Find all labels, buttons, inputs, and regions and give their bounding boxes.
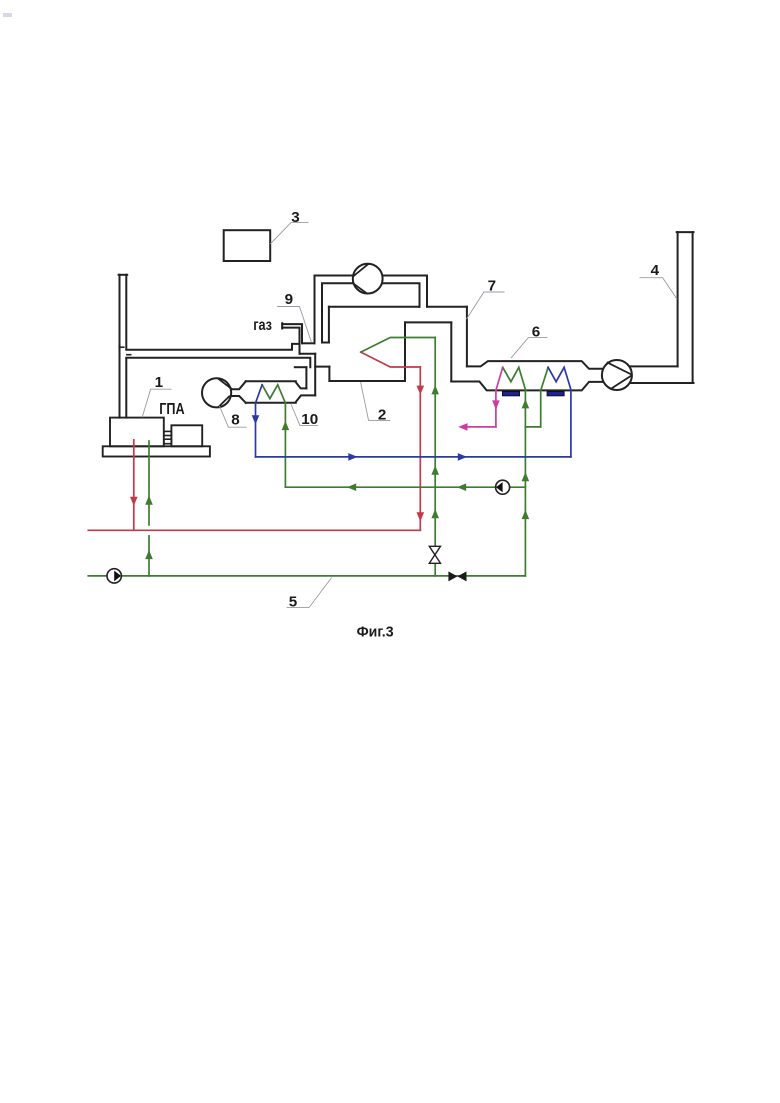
tick mark on stack left line — [119, 346, 124, 348]
green arrow left on return line (right) — [457, 483, 466, 491]
green leg of HX10 coil down to return line — [284, 403, 286, 487]
svg-text:4: 4 — [651, 262, 660, 279]
gas supply pipe double line with end cap — [282, 323, 302, 354]
riser inner wall x=306.4 — [305, 367, 307, 388]
duct to stack 4 bottom line — [631, 382, 694, 384]
green bottom header 5 left of pump — [88, 575, 107, 577]
magenta arrow down on leg — [492, 400, 500, 409]
duct 7 outer line — [466, 307, 468, 367]
fan chord upper — [608, 363, 631, 375]
box 2 left wall — [404, 322, 406, 381]
fan 8 : circle — [202, 378, 231, 407]
GPA coupling bar upper — [164, 431, 172, 435]
red arrow down above header — [417, 512, 425, 521]
leader for label 1 — [142, 389, 171, 417]
leader for label 2 — [361, 383, 390, 421]
svg-text:6: 6 — [532, 324, 540, 341]
box 2 step horizontal — [315, 366, 329, 368]
U-duct bottom cap — [322, 342, 329, 344]
svg-text:газ: газ — [253, 317, 272, 334]
blue arrow right on header (left) — [348, 453, 357, 461]
recirculation loop inner duct line — [322, 283, 420, 342]
green return line through pump to HX10 — [285, 486, 495, 488]
green segment pump to riser — [510, 486, 526, 488]
svg-text:9: 9 — [285, 291, 293, 308]
exhaust duct from turbine to stack, top line with step up — [126, 344, 299, 350]
recirculation loop outer duct line — [315, 276, 428, 344]
green arrow up above return line — [431, 466, 439, 475]
leader for label 3 — [271, 223, 308, 244]
heat exchanger 6 vessel outline top — [467, 361, 604, 369]
leader for label 8 — [220, 406, 247, 427]
green arrow left on return line (left) — [347, 483, 356, 491]
red arrow down on GPA line — [130, 497, 138, 506]
heat exchanger 6 vessel outline bottom — [451, 382, 603, 391]
blue supply header — [256, 456, 571, 458]
svg-text:10: 10 — [301, 411, 318, 428]
HX6 second coil zigzag blue part — [548, 367, 571, 390]
fan chord lower — [611, 376, 631, 389]
green line from flame down to valve — [434, 338, 436, 547]
svg-text:Фиг.3: Фиг.3 — [357, 623, 394, 640]
fan after HX6 : circle — [602, 360, 632, 390]
magenta leg of HX6 first coil — [495, 391, 497, 427]
green arrow up on riser below return — [522, 510, 530, 519]
blue leg of HX10 coil down — [255, 403, 257, 457]
red hot-water line down from box 2 — [419, 367, 421, 530]
green arrow up below return line — [431, 509, 439, 518]
gate valve vertical on green line — [429, 546, 440, 563]
green leg of HX6 second coil — [540, 391, 542, 427]
leader for label 10 — [291, 405, 317, 426]
navy tube-sheet bar under HX6 first coil — [503, 392, 520, 396]
GPA base plate — [103, 446, 210, 456]
instrument box 3 — [224, 230, 271, 261]
red hot-water header to the left — [88, 529, 420, 531]
HX10 coil zigzag blue part — [256, 385, 263, 403]
HX10 coil zigzag green part — [262, 385, 285, 403]
turbine outlet box 2 top line — [405, 321, 451, 323]
fan 8 chord lower — [218, 396, 229, 407]
leader for label 9 — [278, 307, 312, 342]
duct to stack 4 top line — [631, 365, 678, 367]
svg-text:1: 1 — [155, 374, 164, 391]
riser outer wall x=315.2 — [314, 354, 316, 396]
fan 8 chord upper — [218, 379, 231, 389]
duct 7 inner line — [450, 322, 452, 381]
green arrow up on GPA line upper — [145, 496, 153, 505]
svg-text:8: 8 — [231, 412, 239, 429]
leader for label 4 — [640, 278, 677, 299]
green line from GPA down (upper part) — [148, 441, 150, 525]
red arrow down near box 2 — [417, 386, 425, 395]
burner flame red arm — [361, 352, 421, 367]
svg-text:7: 7 — [488, 278, 496, 295]
blue riser to HX6 second coil — [570, 391, 572, 457]
green arrow up on HX10 leg — [282, 421, 290, 430]
GPA secondary box — [171, 425, 202, 446]
green bottom header 5 right of pump — [121, 575, 525, 577]
svg-text:2: 2 — [378, 407, 386, 424]
green arrow up below flame — [431, 385, 439, 394]
HX6 first coil zigzag magenta part — [496, 367, 503, 390]
rung y=367 — [295, 366, 307, 368]
exhaust duct bottom line with downturn — [126, 358, 310, 367]
gas nozzle lower line y=353.7 — [300, 353, 316, 355]
horizontal duct y=306.7 left segment — [329, 306, 420, 308]
leader for label 7 — [467, 292, 504, 319]
red line from GPA down — [133, 440, 135, 531]
box 2 step vertical — [328, 367, 330, 381]
blue arrow right on header (right) — [458, 453, 467, 461]
green riser x=525.4 from bottom header to HX6 — [524, 391, 526, 576]
magenta arrow left at line end — [458, 423, 467, 431]
box 2 bottom line — [329, 380, 405, 382]
svg-text:ГПА: ГПА — [159, 401, 184, 418]
connector y=343.3 — [302, 342, 315, 344]
green rung to second coil leg — [525, 426, 540, 428]
fan chord lower — [353, 284, 367, 294]
heat exchanger 10 vessel outline — [231, 381, 295, 403]
GPA coupling bar lower — [164, 439, 172, 444]
fan on recirculation loop: circle — [353, 264, 383, 294]
navy tube-sheet bar under HX6 second coil — [547, 392, 564, 396]
gate valve horizontal on bottom header — [448, 571, 466, 581]
green line from GPA down (lower part) — [148, 536, 150, 576]
HX10 outlet top line — [296, 382, 307, 389]
faint scan smudge top-left — [3, 13, 12, 17]
circulation pump on bottom header — [107, 569, 121, 583]
svg-text:5: 5 — [289, 593, 298, 610]
svg-text:3: 3 — [291, 209, 299, 226]
burner flame green arm — [361, 338, 435, 353]
GPA unit 1 : main body box — [110, 418, 164, 447]
green arrow up on riser above return — [522, 472, 530, 481]
downcomer V3 upper — [328, 307, 330, 343]
blue arrow down on HX10 leg — [252, 415, 260, 424]
horizontal duct y=306.7 right segment to duct 7 — [427, 306, 467, 308]
fan chord upper — [353, 264, 368, 276]
green line from valve to bottom header — [434, 563, 436, 576]
circulation pump on return line — [496, 480, 510, 494]
exhaust stack left (at GPA), double line with top cap — [119, 275, 128, 418]
magenta outlet line left — [462, 426, 496, 428]
exhaust stack 4 double line with top cap — [677, 232, 694, 383]
HX6 second coil zigzag green leg — [541, 367, 548, 390]
leader for label 5 — [287, 578, 331, 608]
green arrow up on riser near HX6 — [522, 399, 530, 408]
HX10 outlet bottom line — [296, 395, 316, 402]
green arrow up on GPA line lower — [145, 550, 153, 559]
leader for label 6 — [511, 338, 547, 358]
HX6 first coil zigzag green part — [503, 367, 526, 390]
tick mark right of stack — [127, 354, 131, 356]
